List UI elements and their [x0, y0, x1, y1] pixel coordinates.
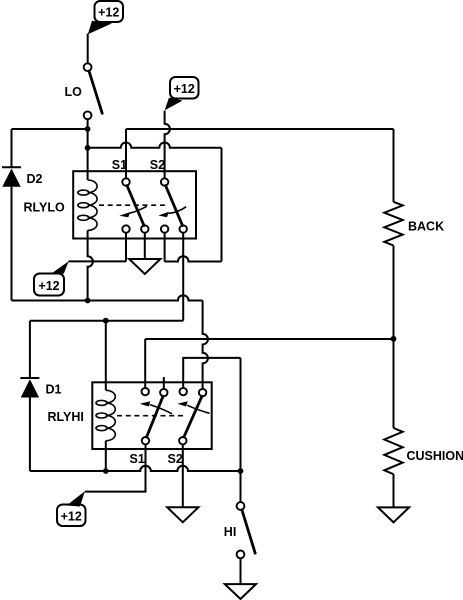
svg-text:+12: +12 — [98, 6, 119, 20]
wire RLYHI coil bottom — [105, 441, 107, 471]
wire +12 flag 2 down to S2 pole (hops over horizontal wire) — [165, 111, 170, 179]
wire S1 throw-left to +12 flag — [69, 260, 127, 262]
relay RLYHI coil — [96, 390, 115, 440]
power flag +12 (feeds RLYHI S1 pole) — [57, 491, 86, 526]
svg-text:CUSHION: CUSHION — [407, 449, 463, 463]
wire left rail down to diode D2 — [11, 129, 13, 167]
wire right vertical of LO net — [221, 148, 223, 262]
junction dot (RLYHI coil feed) — [103, 318, 109, 324]
switch LO — [84, 63, 103, 119]
svg-text:D1: D1 — [46, 383, 62, 397]
junction dot (RLYHI coil bottom) — [103, 468, 109, 474]
junction dot (LO net) — [85, 145, 91, 151]
wire RLYHI S1 pole down to +12 flag — [85, 444, 146, 491]
wire HI bottom to ground — [240, 558, 242, 584]
svg-text:+12: +12 — [38, 279, 59, 293]
svg-text:S2: S2 — [168, 452, 183, 466]
ground (CUSHION) — [378, 507, 409, 522]
svg-text:LO: LO — [65, 85, 83, 99]
wire D2 to bottom left corner — [11, 187, 13, 301]
power flag +12 (feeds RLYLO S1 throw) — [34, 261, 69, 295]
relay switch S1 (RLYHI) — [142, 388, 168, 445]
relay RLYLO box — [73, 171, 196, 238]
diode D1 — [20, 378, 39, 398]
switch HI — [237, 502, 256, 558]
relay RLYHI arrow S2 — [177, 401, 209, 413]
junction dot (coil bottom / D2 net) — [85, 298, 91, 304]
wire down to RLYHI pin4 (hops over two horizontals) — [203, 301, 208, 390]
wire D1 down to bottom run — [29, 398, 31, 472]
junction dot (LO / left rail / coil feed) — [85, 126, 91, 132]
relay switch S1 (RLYLO) — [122, 178, 148, 232]
power flag +12 (feeds relay S2 pole) — [165, 77, 199, 110]
diode D2 — [2, 167, 21, 187]
ground (RLYHI S2) — [167, 507, 198, 522]
wire RLYHI coil top feed — [105, 321, 107, 391]
junction dot (HI switch net) — [238, 468, 244, 474]
relay RLYLO arrow S1 — [119, 206, 147, 217]
wire S2 throw-left down — [164, 233, 166, 262]
svg-text:S2: S2 — [150, 158, 165, 172]
resistor CUSHION — [384, 428, 402, 474]
wire node LO horizontal to left rail — [12, 128, 88, 130]
relay RLYHI pin2 stub — [163, 377, 165, 389]
ground (RLYLO S1) — [129, 259, 160, 274]
wire bottom-left net horizontal (hops over S2 throw-right wire) — [12, 295, 203, 300]
svg-text:RLYLO: RLYLO — [24, 201, 65, 215]
wire RLYHI pin3 up and right (hops over pin4 wire) — [183, 358, 240, 388]
wire BACK/CUSHION node to RLYHI pin1 — [145, 338, 393, 340]
relay RLYHI box — [92, 382, 211, 449]
relay RLYLO arrow S2 — [158, 207, 186, 218]
wire node to relay coil top — [87, 129, 89, 180]
wire RLYHI S2 pole down to ground — [182, 444, 184, 507]
wire right vertical down to HI switch net — [240, 358, 242, 502]
relay RLYLO coil — [78, 180, 97, 230]
wire down to RLYHI pin1 — [144, 339, 146, 388]
right rail: main horizontal to BACK resistor — [393, 129, 395, 202]
relay switch S2 (RLYLO) — [161, 178, 187, 232]
wire main horizontal to BACK resistor — [126, 128, 394, 130]
wire S1 throw-right to ground — [144, 233, 146, 260]
junction dot (BACK/CUSHION node) — [391, 336, 397, 342]
wire down to diode D1 — [29, 321, 31, 378]
svg-text:HI: HI — [224, 525, 237, 539]
svg-text:S1: S1 — [112, 158, 127, 172]
wire S2 throw-right down to lower run — [182, 233, 184, 321]
wire LO net horizontal (hops over S1,S2 pole wires) — [88, 143, 222, 148]
power flag +12 (top, feeds switch LO) — [88, 1, 123, 34]
wire LO bottom to node — [87, 119, 89, 129]
wire BACK to CUSHION — [393, 246, 395, 429]
wire S1 pole up to main horizontal — [125, 129, 127, 178]
wire RLYLO coil bottom (hops over +12 wire) to node — [88, 230, 93, 300]
relay switch S2 (RLYHI) — [179, 388, 206, 445]
svg-text:S1: S1 — [130, 452, 145, 466]
wire S1 throw-left down — [125, 233, 127, 262]
wire CUSHION to ground — [393, 474, 395, 507]
svg-text:+12: +12 — [61, 510, 82, 524]
wire bottom run (hops over RLYHI S1,S2 pole wires) — [30, 466, 241, 471]
relay RLYHI arrow S1 — [140, 401, 172, 414]
ground (HI) — [225, 584, 256, 599]
wire +12 to LO switch — [87, 34, 89, 64]
wire S2 throw-right run left to RLYHI coil — [30, 320, 183, 322]
svg-text:+12: +12 — [174, 82, 195, 96]
relay RLYLO actuation dashed line — [99, 204, 165, 206]
wire S2 throw-left horizontal (hops over S2 throw-right wire) — [165, 256, 222, 261]
svg-text:RLYHI: RLYHI — [48, 410, 84, 424]
svg-text:BACK: BACK — [408, 220, 444, 234]
resistor BACK — [384, 202, 402, 246]
svg-text:D2: D2 — [27, 172, 43, 186]
relay RLYHI actuation dashed line — [117, 415, 185, 417]
